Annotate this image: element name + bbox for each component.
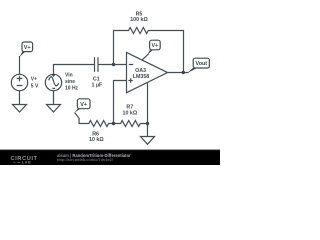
svg-text:LM358: LM358 [133, 74, 150, 80]
svg-text:V+: V+ [24, 45, 31, 51]
svg-text:10 kΩ: 10 kΩ [89, 137, 104, 143]
svg-text:Vin: Vin [65, 72, 73, 78]
svg-text:100 kΩ: 100 kΩ [130, 17, 148, 23]
svg-text:C1: C1 [93, 76, 100, 82]
svg-text:V+: V+ [80, 102, 87, 108]
svg-text:5 V: 5 V [31, 83, 39, 89]
svg-text:http://circuitlab.com/c/7dv4e2: http://circuitlab.com/c/7dv4e2/ [57, 157, 114, 162]
svg-text:10 Hz: 10 Hz [65, 86, 79, 92]
svg-text:sine: sine [65, 79, 75, 85]
svg-text:10 kΩ: 10 kΩ [123, 110, 138, 116]
svg-text:V+: V+ [151, 43, 158, 49]
svg-text:V+: V+ [31, 76, 37, 82]
svg-text:1 µF: 1 µF [92, 83, 103, 89]
svg-text:∿⎓ LAB: ∿⎓ LAB [13, 161, 31, 165]
svg-text:Vout: Vout [196, 61, 208, 67]
